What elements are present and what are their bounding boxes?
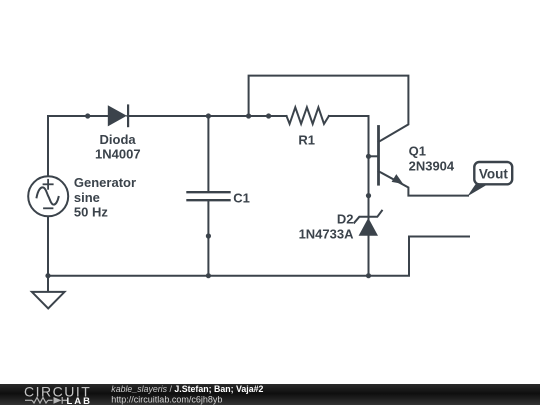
svg-text:sine: sine (74, 190, 100, 205)
svg-text:1N4007: 1N4007 (95, 146, 141, 161)
svg-text:Dioda: Dioda (100, 132, 137, 147)
svg-text:Q1: Q1 (409, 144, 426, 159)
svg-text:C1: C1 (233, 190, 250, 205)
svg-text:Generator: Generator (74, 175, 136, 190)
svg-text:kable_slayeris / J.Stefan; Ban: kable_slayeris / J.Stefan; Ban; Vaja#2 (111, 384, 263, 394)
svg-text:50 Hz: 50 Hz (74, 205, 108, 220)
svg-text:LAB: LAB (67, 396, 93, 405)
svg-text:Vout: Vout (479, 167, 508, 182)
svg-text:2N3904: 2N3904 (409, 159, 455, 174)
svg-text:D2: D2 (337, 212, 354, 227)
svg-text:1N4733A: 1N4733A (299, 227, 355, 242)
svg-text:R1: R1 (298, 133, 315, 148)
svg-text:http://circuitlab.com/c6jh8yb: http://circuitlab.com/c6jh8yb (111, 395, 222, 405)
